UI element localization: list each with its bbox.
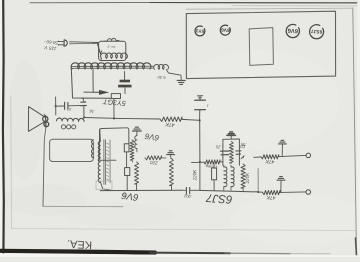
svg-text:6SJ7: 6SJ7 — [311, 28, 323, 35]
svg-text:6SJ7: 6SJ7 — [205, 191, 233, 205]
svg-text:6V6: 6V6 — [221, 26, 230, 33]
svg-text:47K: 47K — [266, 194, 276, 201]
svg-text:5Y3: 5Y3 — [195, 28, 204, 34]
svg-text:220: 220 — [150, 160, 159, 166]
svg-text:KEA.: KEA. — [67, 237, 93, 250]
svg-text:47K: 47K — [165, 120, 175, 127]
svg-text:6V6: 6V6 — [287, 27, 298, 34]
svg-text:6.3V: 6.3V — [157, 75, 166, 81]
svg-text:220K: 220K — [245, 172, 250, 185]
svg-text:.01: .01 — [66, 106, 72, 112]
svg-text:sw–2: sw–2 — [107, 44, 115, 49]
svg-text:+: + — [85, 97, 87, 101]
svg-text:220K: 220K — [192, 169, 197, 182]
svg-text:47K: 47K — [265, 158, 275, 165]
svg-text:%: % — [123, 192, 126, 196]
svg-text:.002: .002 — [183, 193, 192, 199]
